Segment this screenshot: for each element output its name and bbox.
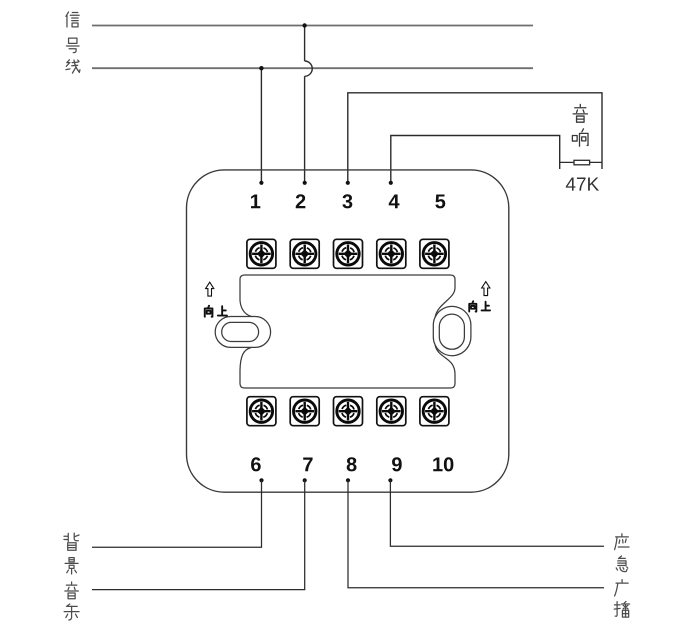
junction on signal line B bbox=[259, 66, 263, 70]
pin number 10 bbox=[433, 457, 453, 471]
screw terminal 3 bbox=[334, 239, 363, 268]
screw terminal 6 bbox=[247, 397, 276, 426]
screw terminal 1 bbox=[247, 239, 276, 268]
screw terminal 8 bbox=[334, 397, 363, 426]
node terminal 4 bbox=[389, 181, 393, 185]
wire terminal 8 to emergency broadcast bbox=[348, 480, 604, 588]
screw terminal 4 bbox=[377, 239, 406, 268]
wire terminal 3 to speaker top bbox=[348, 93, 602, 183]
label 向上 left bbox=[205, 306, 227, 317]
pin number 6 bbox=[251, 457, 261, 471]
junction on signal line A bbox=[302, 23, 306, 27]
wire terminal 9 to emergency broadcast bbox=[390, 480, 604, 546]
pin number 7 bbox=[303, 457, 312, 471]
pin number 2 bbox=[296, 194, 306, 208]
label 应急广播 (emergency broadcast) bbox=[614, 534, 629, 617]
left mounting ear inner slot bbox=[222, 322, 259, 341]
wire line B to terminal 1 bbox=[260, 68, 262, 183]
wire signal line B (lower horizontal) bbox=[92, 67, 533, 69]
wire terminal 7 to background music bbox=[92, 480, 305, 589]
label net 信号线 (signal line) bbox=[66, 12, 80, 73]
wire hop arc over line B bbox=[305, 61, 313, 76]
screw terminal 2 bbox=[290, 239, 319, 268]
resistor R body bbox=[574, 160, 590, 165]
label 音响 (speaker) bbox=[572, 104, 588, 146]
pin number 9 bbox=[392, 457, 402, 471]
left mounting ear outer slot bbox=[215, 317, 270, 348]
wire line A to terminal 2 (with hop over line B) bbox=[304, 26, 306, 183]
up arrow left bbox=[206, 282, 214, 296]
node terminal 2 bbox=[303, 181, 307, 185]
resistor R leads bbox=[560, 161, 602, 163]
pin number 4 bbox=[389, 194, 400, 208]
pin number 1 bbox=[251, 194, 260, 208]
node terminal 1 bbox=[259, 181, 263, 185]
screw terminal 9 bbox=[377, 397, 406, 426]
screw terminal 5 bbox=[420, 239, 449, 268]
node terminal 6 bbox=[259, 478, 263, 482]
wire signal line A (top horizontal) bbox=[92, 25, 533, 27]
screw terminal 7 bbox=[290, 397, 319, 426]
panel opening with mounting ears bbox=[240, 275, 455, 388]
wire terminal 6 to background music bbox=[92, 480, 262, 547]
node terminal 9 bbox=[388, 478, 392, 482]
screw terminal 10 bbox=[420, 397, 449, 426]
pin number 3 bbox=[342, 194, 352, 208]
label 向上 right bbox=[469, 301, 490, 311]
up arrow right bbox=[482, 282, 490, 296]
node terminal 8 bbox=[346, 478, 350, 482]
pin number 8 bbox=[347, 457, 357, 471]
node terminal 7 bbox=[303, 478, 307, 482]
right mounting ear inner slot bbox=[439, 314, 464, 349]
wire terminal 4 to speaker bottom bbox=[391, 136, 560, 183]
right mounting ear outer slot bbox=[435, 306, 471, 355]
value label 47K bbox=[566, 178, 599, 191]
node terminal 3 bbox=[346, 181, 350, 185]
label 背景音乐 (background music) bbox=[64, 533, 79, 620]
panel outline bbox=[187, 170, 509, 492]
pin number 5 bbox=[435, 194, 445, 208]
